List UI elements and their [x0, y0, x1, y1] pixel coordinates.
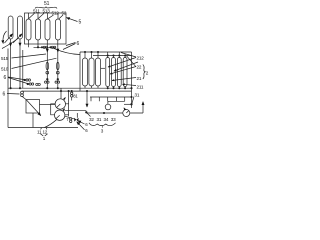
ticks 11 12 [41, 128, 47, 130]
vessel 511 [26, 19, 31, 40]
node dots top [84, 51, 85, 52]
valve cluster VC3 [36, 83, 38, 85]
svg-text:2: 2 [146, 71, 149, 76]
leader 515 [12, 54, 47, 58]
node j2 [41, 47, 42, 48]
svg-text:6: 6 [85, 122, 88, 127]
svg-text:21: 21 [137, 76, 142, 81]
vessel 52 [56, 19, 61, 40]
leader 512 [48, 15, 54, 19]
svg-text:212: 212 [137, 56, 145, 61]
wire manifold upper long [8, 87, 132, 89]
vessel A2 (outer left) [18, 16, 23, 39]
leader 6 bottom [7, 93, 20, 96]
leader 513 [38, 13, 44, 18]
wire right bank stems [108, 56, 125, 58]
wire 512 column [46, 47, 48, 88]
valve cluster VC1 [26, 79, 28, 81]
node dots manifold [10, 88, 11, 89]
wire y104 [124, 103, 132, 105]
wire right trunk [68, 91, 70, 116]
svg-text:510: 510 [1, 67, 9, 72]
wire manifold top second [93, 55, 132, 57]
svg-text:51: 51 [44, 1, 50, 7]
wire HX to pump [40, 104, 56, 106]
brace 3 bottom [89, 123, 116, 126]
wire left bank stems [85, 52, 98, 58]
svg-text:31: 31 [135, 93, 140, 98]
wire right bank left edge [79, 52, 81, 91]
svg-text:6: 6 [3, 92, 6, 98]
blower B [123, 110, 130, 117]
wire sub stems [91, 97, 125, 101]
wire 52 column [57, 47, 59, 88]
svg-text:6: 6 [85, 128, 88, 133]
vessel 513 [36, 19, 41, 40]
wire vessel bottom stems [29, 40, 58, 47]
rotameter F2 [57, 62, 60, 70]
arrow A2 flow down [19, 39, 21, 89]
brace 2 right [143, 65, 145, 80]
wire bowtie stem [76, 113, 78, 118]
wire bottom edge [8, 127, 78, 129]
wire outlet riser [142, 102, 144, 113]
leader 6 left [8, 77, 29, 84]
tie dash [101, 67, 106, 69]
leader 511 [29, 13, 35, 18]
svg-text:3: 3 [101, 129, 104, 134]
svg-text:1: 1 [43, 136, 46, 141]
hook arrow far left [3, 31, 7, 44]
wire valve to HX [22, 96, 26, 99]
valve V2 [51, 46, 53, 48]
rotameter F1 [46, 62, 49, 70]
wire manifold lower long [22, 90, 132, 92]
node j1 [37, 47, 38, 48]
node dots [107, 55, 108, 56]
vessel 512 [45, 19, 50, 40]
leader 32 [87, 113, 91, 117]
pump 31 upper circle [55, 99, 65, 109]
svg-text:31: 31 [97, 117, 102, 122]
wire mid line [65, 110, 86, 112]
svg-text:5: 5 [79, 20, 82, 26]
svg-text:7: 7 [66, 117, 69, 122]
leader 510 [12, 58, 57, 68]
svg-text:6: 6 [4, 75, 7, 81]
arrow feed down [86, 91, 88, 107]
vessel A1 (outer left) [8, 16, 13, 39]
svg-text:81: 81 [73, 94, 78, 99]
wire manifold top [80, 51, 132, 53]
svg-text:515: 515 [1, 56, 9, 61]
node on product line [103, 112, 104, 113]
arrow through A2 [13, 34, 22, 43]
svg-text:6: 6 [77, 41, 80, 47]
wire sub manifold [90, 96, 132, 98]
wire HX bottom drop [32, 113, 34, 128]
arrow through A1 [5, 34, 13, 43]
wire bypass loop [51, 104, 55, 115]
brace 51 [35, 7, 57, 9]
valve 81 [71, 92, 73, 94]
wire to valve row2 [65, 116, 74, 119]
gauge A [105, 104, 111, 110]
node j4 [57, 79, 59, 81]
wire curve to right bank [54, 48, 81, 54]
wire vessel top stems [29, 13, 59, 19]
leader fan right labels [108, 58, 136, 68]
wire right riser [131, 52, 133, 104]
vessel 22 d [123, 58, 127, 87]
curve inlet left [2, 39, 18, 49]
valve bowtie [74, 118, 79, 122]
vessel 21 a [82, 58, 87, 86]
wire drop x22.8 [22, 50, 24, 88]
wire product line [87, 112, 143, 114]
svg-text:22: 22 [137, 65, 142, 70]
valve 6 bottom-left [21, 91, 24, 94]
leader 5 [68, 18, 78, 21]
valve col1 [47, 79, 49, 81]
vessel 22 c [117, 58, 121, 87]
leader 31 [132, 97, 134, 104]
leader 6 top [63, 43, 76, 50]
tick 3 [101, 126, 103, 127]
ticks 1 [41, 134, 48, 136]
leader 6 b [77, 122, 85, 130]
valve 7 [70, 118, 72, 120]
wire valve row [34, 46, 56, 48]
valve cluster VC2 [29, 83, 31, 85]
wire pump outlet curve [45, 120, 57, 128]
vessel 22 a [106, 58, 110, 87]
node j5 [86, 112, 88, 114]
svg-text:511: 511 [33, 9, 40, 14]
valve V1 [43, 46, 45, 48]
leader 52 [59, 15, 63, 19]
svg-text:32: 32 [89, 117, 94, 122]
wire pump stem [60, 89, 62, 99]
arrow through HX [27, 100, 41, 116]
wire A1 drop [10, 39, 12, 89]
svg-text:11 12: 11 12 [37, 129, 48, 134]
svg-text:513: 513 [43, 9, 51, 14]
vessel 22 b [112, 58, 116, 87]
svg-text:52: 52 [62, 10, 67, 15]
svg-text:211: 211 [137, 85, 144, 90]
svg-text:512: 512 [52, 10, 60, 15]
arrow A1 flow down [10, 44, 12, 47]
box 5 [25, 13, 67, 44]
vessel 21 b [89, 58, 94, 86]
svg-text:33: 33 [111, 117, 116, 122]
leader 6 a [78, 121, 85, 124]
vessel 21 c [95, 58, 100, 86]
svg-text:34: 34 [104, 117, 109, 122]
pump 41 lower circle [55, 110, 65, 120]
heat exchanger 11 [26, 100, 40, 114]
wire left boundary [7, 49, 9, 128]
